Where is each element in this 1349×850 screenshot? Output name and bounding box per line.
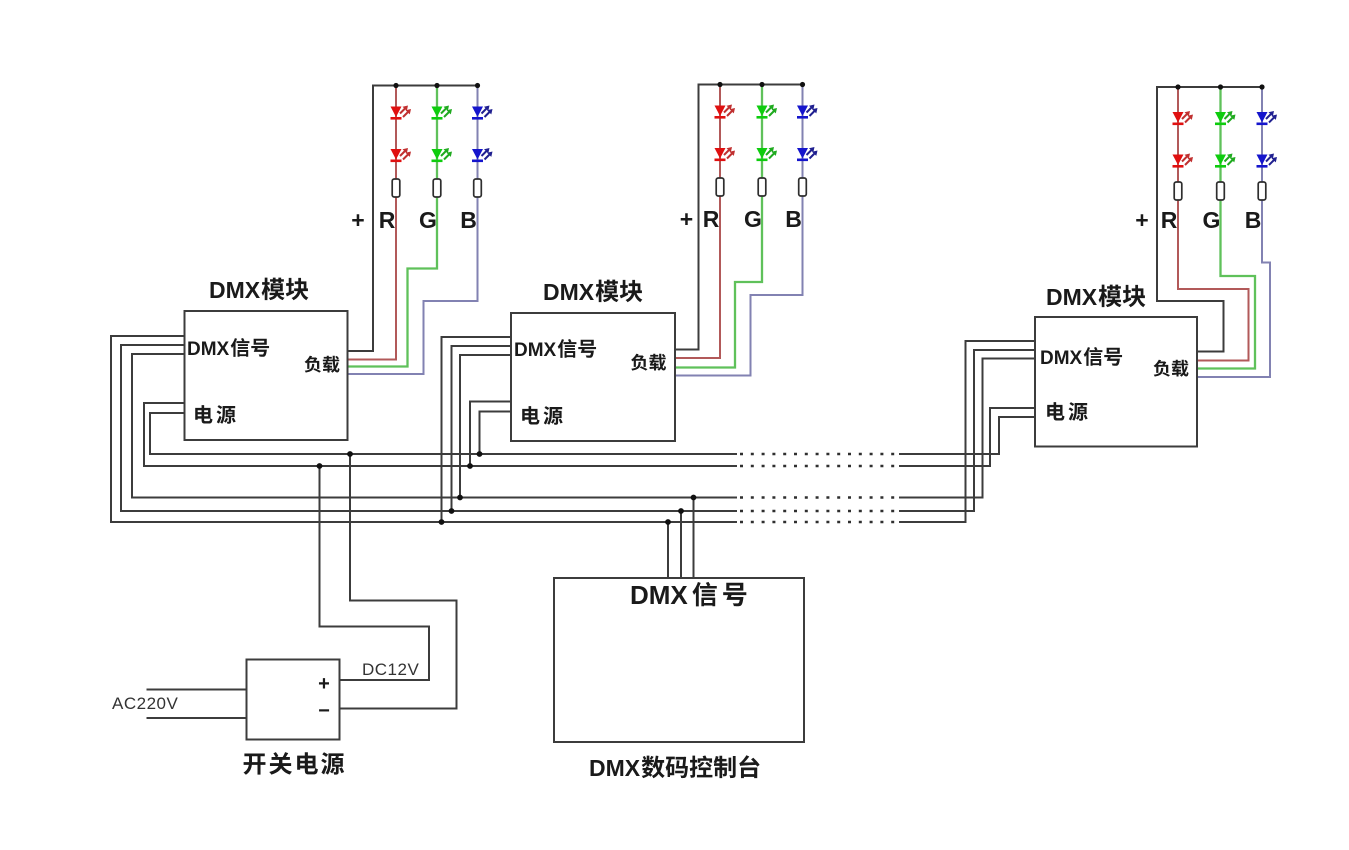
LED D26 blue: [797, 148, 808, 159]
wire: DMX signal B to module3: [899, 350, 1035, 511]
label: module3 电源 port: [1047, 402, 1064, 420]
svg-text:DMX: DMX: [514, 340, 557, 361]
LED D13 green: [432, 107, 443, 118]
svg-text:+: +: [351, 207, 364, 233]
resistor RR3: [1174, 182, 1182, 200]
resistor RG2: [758, 178, 766, 196]
LED D25 blue: [797, 106, 808, 117]
node: junction console C on bus: [691, 495, 697, 501]
node: rail junction G3: [1218, 84, 1223, 89]
label: module2 电源 port: [522, 406, 539, 424]
node: rail junction B3: [1259, 84, 1264, 89]
resistor RB3: [1258, 182, 1266, 200]
wire: AC220V line 1: [147, 689, 247, 691]
label: module2 负载 port: [631, 354, 647, 371]
DMX console U4: [554, 578, 804, 742]
node: junction module2 power+: [467, 463, 473, 469]
node: junction module2 power-: [477, 451, 483, 457]
LED D23 green: [757, 106, 768, 117]
node: rail junction B2: [800, 82, 805, 87]
wire: B channel, LED group 2: [675, 85, 803, 376]
node: junction supply + on bus: [317, 463, 323, 469]
wire: DMX signal C drop to console: [693, 498, 695, 579]
node: junction console A on bus: [665, 519, 671, 525]
svg-text:DMX: DMX: [589, 755, 641, 781]
wire: AC220V line 2: [147, 717, 247, 719]
wire: DC12V- tap to module2 power: [480, 412, 512, 455]
wire: R channel, LED group 1: [348, 86, 397, 360]
svg-text:DMX: DMX: [1040, 348, 1083, 369]
svg-text:B: B: [1245, 207, 1262, 233]
label: module1 负载 port: [305, 356, 321, 373]
wire: DC12V+ from module1 power to bus: [144, 403, 737, 466]
wire: DMX signal B tap to module2: [452, 346, 512, 511]
DMX module U3: [1035, 317, 1197, 447]
wire: +12V rail & feed, LED group 1: [348, 86, 478, 352]
wire: DMX signal C tap to module2: [460, 355, 511, 498]
LED D34 green: [1215, 155, 1226, 166]
wire: DMX signal C from module1 to bus: [132, 354, 737, 498]
svg-text:+: +: [680, 206, 693, 232]
svg-text:+: +: [1135, 207, 1148, 233]
svg-text:DMX: DMX: [630, 580, 688, 610]
wire: DC12V+ to module3 power: [899, 408, 1035, 466]
wire: DMX signal C dashed continuation: [740, 496, 899, 499]
svg-text:R: R: [1161, 207, 1178, 233]
node: rail junction B1: [475, 83, 480, 88]
wire: DMX signal B dashed continuation: [740, 510, 899, 513]
svg-text:DMX: DMX: [209, 277, 261, 303]
svg-text:B: B: [785, 206, 802, 232]
wire: DMX signal B from module1 to bus: [121, 345, 737, 511]
svg-text:G: G: [744, 206, 762, 232]
wire: DC12V- to module3 power: [899, 417, 1035, 454]
wire: DC12V+ dashed continuation: [740, 465, 899, 468]
svg-text:G: G: [419, 207, 437, 233]
switching power supply PS1: [247, 660, 340, 740]
node: junction module2 A on bus: [439, 519, 445, 525]
LED D12 red: [391, 149, 402, 160]
wire: DMX signal A tap to module2: [442, 337, 512, 522]
node: rail junction R3: [1175, 84, 1180, 89]
svg-text:DC12V: DC12V: [362, 660, 419, 679]
wire: R channel, LED group 3: [1178, 87, 1249, 361]
LED D11 red: [391, 107, 402, 118]
LED D32 red: [1173, 155, 1184, 166]
LED D22 red: [715, 148, 726, 159]
node: junction module2 B on bus: [449, 508, 455, 514]
DMX module U1: [185, 311, 348, 440]
svg-text:+: +: [318, 673, 330, 695]
wire: DC12V- riser from power supply: [340, 454, 457, 709]
node: rail junction G2: [759, 82, 764, 87]
resistor RG3: [1217, 182, 1225, 200]
svg-text:DMX: DMX: [1046, 284, 1098, 310]
svg-text:G: G: [1203, 207, 1221, 233]
wire: DC12V- from module1 power to bus: [150, 413, 737, 454]
label: module3 负载 port: [1154, 360, 1170, 377]
resistor RB1: [474, 179, 482, 197]
label: supply title 开关电源: [244, 753, 266, 774]
resistor RR1: [392, 179, 400, 197]
wire: DC12V+ tap to module2 power: [470, 402, 511, 467]
node: junction console B on bus: [678, 508, 684, 514]
wire: DMX signal C to module3: [899, 359, 1035, 498]
LED D16 blue: [472, 149, 483, 160]
wire: DC12V- dashed continuation: [740, 453, 899, 456]
svg-text:R: R: [379, 207, 396, 233]
node: junction supply - on bus: [347, 451, 353, 457]
resistor RR2: [716, 178, 724, 196]
node: rail junction R2: [717, 82, 722, 87]
wire: DMX signal A drop to console: [667, 522, 669, 578]
resistor RG1: [433, 179, 441, 197]
wire: DMX signal A dashed continuation: [740, 521, 899, 524]
node: rail junction G1: [434, 83, 439, 88]
LED D15 blue: [472, 107, 483, 118]
svg-text:DMX: DMX: [543, 279, 595, 305]
LED D31 red: [1173, 112, 1184, 123]
svg-text:AC220V: AC220V: [112, 694, 178, 713]
wire: G channel, LED group 2: [675, 85, 762, 368]
wire: DMX signal A to module3: [899, 341, 1035, 522]
LED D24 green: [757, 148, 768, 159]
wire: DC12V+ riser from power supply: [320, 466, 430, 680]
svg-text:B: B: [460, 207, 477, 233]
node: junction module2 C on bus: [457, 495, 463, 501]
label: module1 电源 port: [195, 405, 212, 423]
LED D14 green: [432, 149, 443, 160]
wire: G channel, LED group 3: [1197, 87, 1255, 369]
wire: DMX signal A from module1 to bus: [111, 336, 737, 522]
wire: B channel, LED group 3: [1197, 87, 1270, 377]
LED D35 blue: [1257, 112, 1268, 123]
LED D21 red: [715, 106, 726, 117]
LED D33 green: [1215, 112, 1226, 123]
svg-text:−: −: [318, 700, 330, 722]
DMX module U2: [511, 313, 675, 441]
wire: G channel, LED group 1: [348, 86, 438, 367]
resistor RB2: [799, 178, 807, 196]
wire: B channel, LED group 1: [348, 86, 478, 375]
LED D36 blue: [1257, 155, 1268, 166]
wire: R channel, LED group 2: [675, 85, 720, 359]
wire: +12V rail & feed, LED group 3: [1157, 87, 1262, 352]
node: rail junction R1: [393, 83, 398, 88]
svg-text:DMX: DMX: [187, 339, 230, 360]
svg-text:R: R: [703, 206, 720, 232]
wire: DMX signal B drop to console: [680, 511, 682, 578]
wire: +12V rail & feed, LED group 2: [675, 85, 803, 350]
